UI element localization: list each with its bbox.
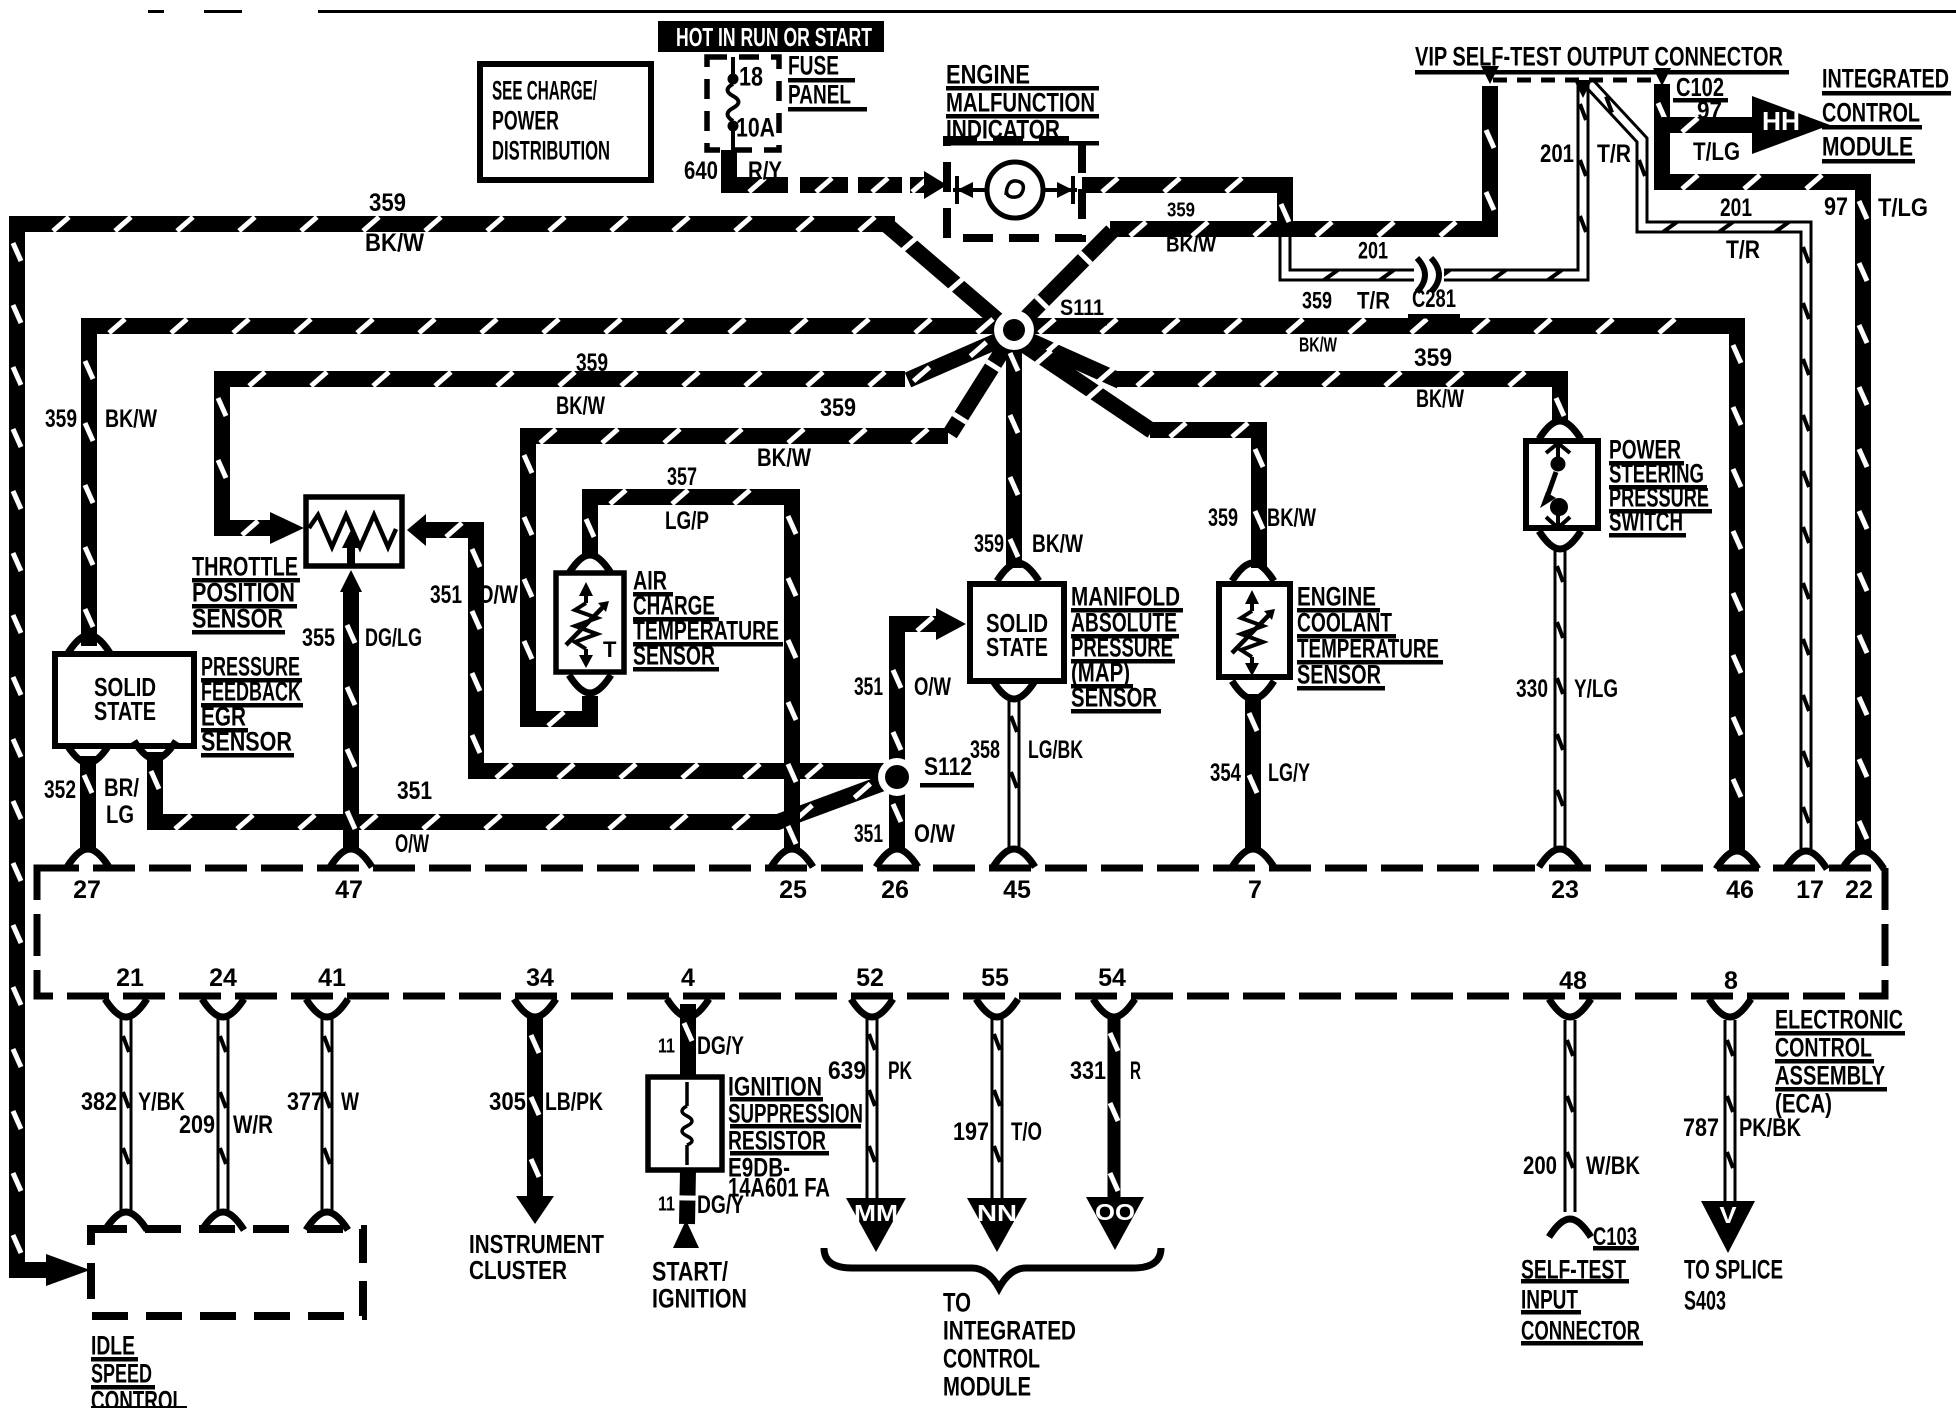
svg-text:SENSOR: SENSOR (201, 727, 292, 757)
svg-text:352: 352 (44, 776, 76, 804)
svg-text:SENSOR: SENSOR (633, 641, 715, 671)
svg-text:DG/Y: DG/Y (697, 1032, 744, 1060)
svg-text:209: 209 (179, 1111, 215, 1139)
svg-text:24: 24 (209, 964, 237, 992)
svg-text:HOT IN RUN OR START: HOT IN RUN OR START (676, 22, 872, 52)
svg-text:MODULE: MODULE (1822, 132, 1913, 162)
svg-text:CLUSTER: CLUSTER (469, 1255, 567, 1285)
svg-text:48: 48 (1559, 967, 1587, 995)
svg-text:201: 201 (1358, 238, 1388, 265)
svg-text:BK/W: BK/W (1166, 233, 1216, 256)
svg-text:SWITCH: SWITCH (1609, 507, 1683, 537)
svg-text:TO SPLICE: TO SPLICE (1684, 1255, 1783, 1285)
svg-text:S403: S403 (1684, 1286, 1726, 1316)
svg-text:CONTROL: CONTROL (91, 1386, 184, 1408)
svg-text:357: 357 (667, 463, 697, 491)
svg-text:IGNITION: IGNITION (652, 1284, 747, 1314)
svg-text:197: 197 (953, 1118, 989, 1146)
svg-text:POWER: POWER (492, 106, 559, 136)
svg-text:26: 26 (881, 876, 909, 904)
svg-text:ASSEMBLY: ASSEMBLY (1775, 1061, 1885, 1091)
svg-text:CONTROL: CONTROL (1775, 1033, 1872, 1063)
svg-text:SENSOR: SENSOR (1071, 683, 1157, 713)
svg-text:SEE CHARGE/: SEE CHARGE/ (492, 76, 597, 106)
svg-text:PK: PK (888, 1057, 912, 1085)
svg-text:T/R: T/R (1357, 288, 1390, 315)
svg-text:BK/W: BK/W (365, 229, 424, 257)
svg-text:SPEED: SPEED (91, 1359, 152, 1389)
svg-text:639: 639 (828, 1057, 866, 1085)
svg-text:BR/: BR/ (104, 774, 139, 802)
svg-text:IDLE: IDLE (91, 1331, 135, 1361)
svg-text:LG/BK: LG/BK (1028, 736, 1083, 764)
svg-text:330: 330 (1516, 675, 1548, 703)
svg-text:18: 18 (739, 62, 763, 92)
svg-text:358: 358 (970, 736, 1000, 764)
svg-text:382: 382 (81, 1088, 117, 1116)
svg-text:BK/W: BK/W (1299, 335, 1337, 357)
svg-text:SENSOR: SENSOR (192, 604, 283, 634)
svg-text:MM: MM (854, 1200, 898, 1226)
svg-text:41: 41 (318, 964, 346, 992)
svg-text:FUSE: FUSE (788, 51, 839, 81)
svg-text:LG/Y: LG/Y (1268, 759, 1310, 787)
svg-text:47: 47 (335, 876, 363, 904)
svg-text:305: 305 (489, 1088, 526, 1116)
svg-text:BK/W: BK/W (1416, 385, 1464, 413)
svg-text:359: 359 (974, 530, 1004, 558)
svg-text:4: 4 (681, 964, 695, 992)
svg-text:HH: HH (1762, 106, 1800, 136)
svg-text:V: V (1720, 1202, 1738, 1228)
svg-text:BK/W: BK/W (1267, 504, 1316, 532)
svg-text:351: 351 (854, 673, 883, 701)
svg-text:INTEGRATED: INTEGRATED (1822, 64, 1949, 94)
svg-text:W/R: W/R (233, 1111, 273, 1139)
svg-text:359: 359 (369, 189, 406, 217)
svg-text:34: 34 (526, 964, 554, 992)
svg-text:T: T (603, 637, 617, 662)
svg-text:OO: OO (1095, 1199, 1135, 1225)
svg-text:T/R: T/R (1597, 140, 1631, 168)
svg-text:52: 52 (856, 964, 884, 992)
svg-text:BK/W: BK/W (1032, 530, 1083, 558)
svg-text:359: 359 (45, 405, 77, 433)
svg-text:C281: C281 (1412, 285, 1456, 313)
svg-text:BK/W: BK/W (757, 444, 811, 472)
svg-text:T/R: T/R (1726, 236, 1760, 264)
svg-text:640: 640 (684, 157, 718, 185)
svg-text:ELECTRONIC: ELECTRONIC (1775, 1005, 1903, 1035)
svg-text:SENSOR: SENSOR (1297, 660, 1381, 690)
svg-text:11: 11 (658, 1194, 675, 1216)
svg-text:TO: TO (943, 1288, 971, 1318)
svg-text:CONTROL: CONTROL (943, 1344, 1040, 1374)
svg-text:97: 97 (1697, 97, 1722, 125)
svg-text:351: 351 (430, 581, 462, 609)
svg-text:MALFUNCTION: MALFUNCTION (946, 88, 1095, 118)
svg-text:START/: START/ (652, 1257, 728, 1287)
svg-text:21: 21 (116, 964, 144, 992)
svg-text:200: 200 (1523, 1152, 1557, 1180)
svg-text:787: 787 (1683, 1114, 1719, 1142)
svg-text:T/O: T/O (1011, 1118, 1042, 1146)
svg-text:354: 354 (1210, 759, 1241, 787)
svg-text:11: 11 (658, 1036, 675, 1058)
svg-text:54: 54 (1098, 964, 1126, 992)
svg-text:W/BK: W/BK (1586, 1152, 1640, 1180)
svg-text:201: 201 (1720, 194, 1752, 222)
svg-text:Y/LG: Y/LG (1574, 675, 1618, 703)
svg-text:DG/LG: DG/LG (365, 624, 422, 652)
svg-text:S111: S111 (1060, 295, 1104, 320)
svg-text:VIP SELF-TEST OUTPUT CONNECTOR: VIP SELF-TEST OUTPUT CONNECTOR (1415, 42, 1783, 72)
svg-text:BK/W: BK/W (105, 405, 157, 433)
svg-text:Y/BK: Y/BK (138, 1088, 185, 1116)
svg-text:27: 27 (73, 876, 101, 904)
svg-text:MODULE: MODULE (943, 1372, 1031, 1402)
svg-text:INTEGRATED: INTEGRATED (943, 1316, 1076, 1346)
svg-text:45: 45 (1003, 876, 1031, 904)
svg-text:LB/PK: LB/PK (545, 1088, 603, 1116)
svg-text:97: 97 (1824, 193, 1848, 221)
svg-text:R/Y: R/Y (748, 157, 782, 185)
svg-text:O/W: O/W (914, 820, 955, 848)
svg-text:DISTRIBUTION: DISTRIBUTION (492, 136, 610, 166)
svg-text:359: 359 (576, 349, 608, 377)
svg-text:O/W: O/W (478, 581, 518, 609)
svg-text:55: 55 (981, 964, 1009, 992)
svg-text:351: 351 (397, 777, 432, 805)
svg-text:LG: LG (106, 801, 134, 829)
svg-text:25: 25 (779, 876, 807, 904)
svg-text:14A601 FA: 14A601 FA (728, 1173, 830, 1203)
svg-text:S112: S112 (924, 753, 972, 781)
svg-text:STATE: STATE (94, 696, 156, 726)
svg-text:7: 7 (1248, 876, 1262, 904)
svg-text:359: 359 (1208, 504, 1238, 532)
svg-text:377: 377 (287, 1088, 323, 1116)
svg-text:R: R (1130, 1057, 1141, 1085)
svg-text:NN: NN (977, 1200, 1017, 1226)
svg-text:22: 22 (1845, 876, 1873, 904)
svg-text:LG/P: LG/P (665, 507, 709, 535)
svg-text:ENGINE: ENGINE (946, 60, 1030, 90)
svg-text:T/LG: T/LG (1693, 138, 1740, 166)
svg-text:331: 331 (1070, 1057, 1106, 1085)
svg-text:351: 351 (854, 820, 883, 848)
svg-text:O/W: O/W (914, 673, 951, 701)
svg-text:359: 359 (1302, 288, 1332, 315)
svg-text:359: 359 (820, 394, 856, 422)
svg-text:359: 359 (1167, 200, 1195, 222)
svg-text:T/LG: T/LG (1878, 194, 1928, 222)
svg-text:359: 359 (1414, 344, 1452, 372)
svg-text:17: 17 (1796, 876, 1824, 904)
svg-text:355: 355 (302, 624, 335, 652)
svg-text:(ECA): (ECA) (1775, 1089, 1832, 1119)
svg-text:O/W: O/W (395, 830, 429, 858)
svg-text:BK/W: BK/W (556, 392, 605, 420)
svg-text:CONTROL: CONTROL (1822, 98, 1920, 128)
svg-text:46: 46 (1726, 876, 1754, 904)
svg-text:INDICATOR: INDICATOR (946, 115, 1060, 145)
svg-text:8: 8 (1724, 967, 1738, 995)
svg-text:STATE: STATE (986, 632, 1048, 662)
svg-text:201: 201 (1540, 140, 1574, 168)
svg-text:23: 23 (1551, 876, 1579, 904)
svg-text:10A: 10A (736, 113, 775, 143)
svg-text:PANEL: PANEL (788, 80, 851, 110)
svg-text:W: W (341, 1088, 359, 1116)
